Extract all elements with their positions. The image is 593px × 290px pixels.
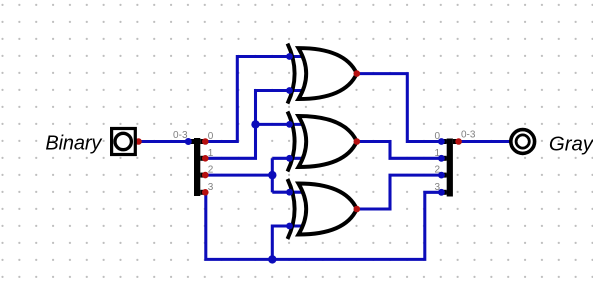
- svg-text:Binary: Binary: [45, 132, 102, 154]
- svg-text:2: 2: [434, 165, 440, 176]
- svg-text:3: 3: [208, 182, 214, 193]
- svg-text:0-3: 0-3: [173, 130, 188, 141]
- svg-text:0: 0: [434, 131, 440, 142]
- svg-text:3: 3: [434, 182, 440, 193]
- svg-text:0-3: 0-3: [461, 130, 476, 141]
- svg-text:Gray: Gray: [549, 133, 593, 155]
- svg-text:1: 1: [208, 148, 214, 159]
- svg-text:1: 1: [434, 148, 440, 159]
- svg-text:0: 0: [208, 131, 214, 142]
- svg-text:2: 2: [208, 165, 214, 176]
